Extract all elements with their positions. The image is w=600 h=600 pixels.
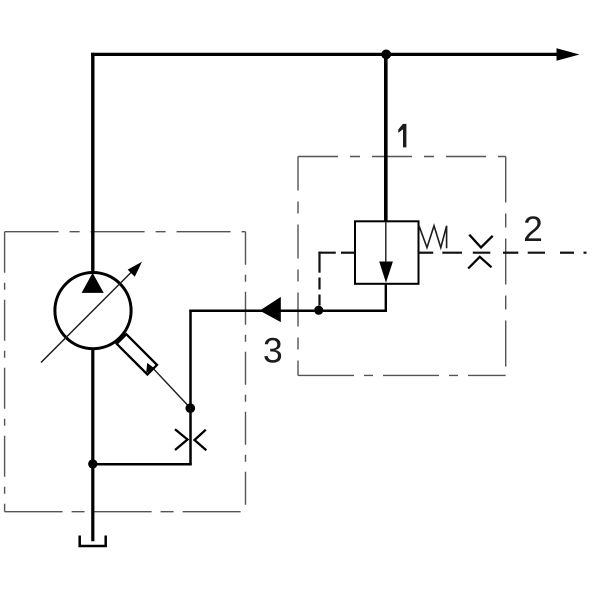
tank symbol: [80, 536, 106, 547]
throttle (restrictor) on drain line: [175, 429, 206, 450]
enclosure box (pump unit, dash-dot): [5, 232, 246, 512]
node: drain junction into tank line: [88, 459, 97, 468]
label 3: [263, 330, 283, 370]
relief valve V1 body: [355, 221, 419, 283]
enclosure box (valve unit, dash-dot): [298, 157, 506, 376]
wire: drain drop from line 3 through throttle: [189, 310, 192, 466]
wire: drain line bottom horizontal: [92, 463, 192, 466]
relief valve internal flow arrow: [379, 221, 393, 282]
label 1: [398, 124, 406, 147]
variable displacement pump P: [55, 273, 131, 349]
wire: line 3 horizontal: [189, 310, 387, 313]
throttle (restrictor) on line 2: [468, 235, 493, 269]
control line from actuator to drain node: [154, 369, 190, 408]
label 2: [523, 209, 543, 249]
wire: line 1 vertical to relief valve: [384, 54, 388, 222]
node: control/drain junction: [186, 403, 196, 413]
wire: line 2 (dashed) to port 2: [442, 252, 586, 254]
flow arrow on top supply line: [557, 48, 580, 60]
svg-text:3: 3: [263, 330, 283, 370]
wire: pump outlet riser (left vertical): [91, 53, 94, 274]
flow arrow on line 3: [260, 297, 281, 322]
pilot line (dashed) from valve to line 3: [318, 252, 355, 306]
wire: relief valve outlet down to line 3: [385, 284, 387, 310]
junction node at top line: [381, 50, 391, 60]
svg-text:2: 2: [523, 209, 543, 249]
node: pilot junction on line 3: [314, 306, 323, 315]
variable-displacement arrow across pump: [41, 262, 142, 363]
wire: top supply line: [91, 53, 560, 56]
wire: pump case/suction line to tank: [91, 349, 94, 542]
relief valve spring: [419, 226, 447, 248]
wire: line 2 stub at valve spring side: [419, 252, 434, 254]
control actuator (stroker box on pump): [117, 334, 157, 374]
